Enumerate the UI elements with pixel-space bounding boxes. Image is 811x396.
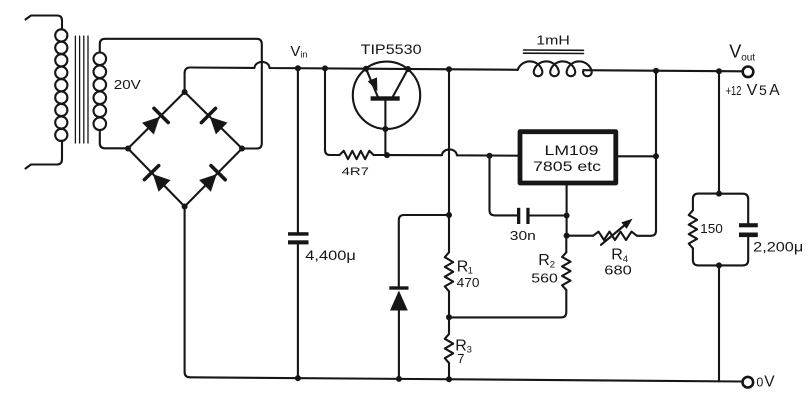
svg-text:470: 470	[457, 275, 480, 290]
svg-text:7805 etc: 7805 etc	[533, 158, 601, 174]
svg-text:out: out	[741, 52, 755, 63]
svg-text:30n: 30n	[510, 228, 536, 243]
svg-text:2,200μ: 2,200μ	[753, 239, 803, 254]
svg-text:2: 2	[550, 260, 555, 271]
svg-text:0: 0	[756, 376, 763, 390]
svg-text:TIP5530: TIP5530	[361, 42, 422, 57]
svg-text:V: V	[764, 373, 775, 390]
svg-text:20V: 20V	[114, 78, 142, 92]
svg-text:680: 680	[604, 263, 632, 278]
svg-text:560: 560	[531, 271, 558, 286]
svg-text:V: V	[729, 42, 741, 62]
svg-text:A: A	[769, 82, 780, 99]
svg-text:+12: +12	[726, 83, 742, 98]
svg-text:1mH: 1mH	[536, 33, 570, 47]
svg-text:V: V	[290, 43, 300, 60]
svg-text:LM109: LM109	[545, 142, 599, 158]
svg-text:V: V	[747, 82, 758, 99]
svg-text:4,400μ: 4,400μ	[305, 247, 356, 263]
svg-text:R: R	[457, 259, 469, 276]
svg-text:7: 7	[457, 351, 464, 366]
svg-text:5: 5	[759, 82, 767, 98]
svg-text:R: R	[611, 247, 623, 264]
svg-text:3: 3	[467, 345, 472, 356]
svg-text:150: 150	[700, 221, 723, 236]
svg-text:4R7: 4R7	[342, 166, 369, 178]
svg-text:in: in	[300, 50, 307, 60]
svg-text:R: R	[538, 252, 550, 269]
